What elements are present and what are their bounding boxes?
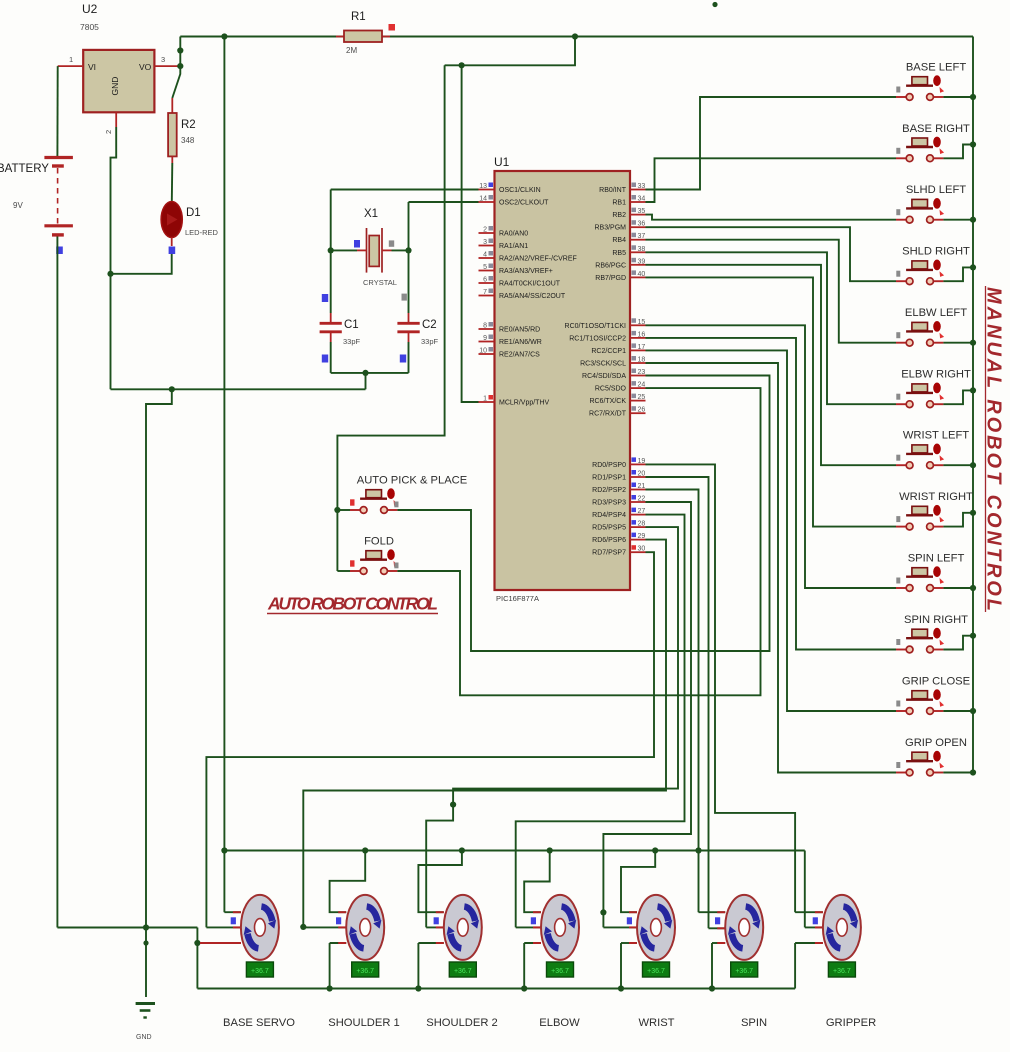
wire C1 bottom xyxy=(330,342,332,373)
pin 7 RA5/AN4/SS/C2OUT xyxy=(479,295,495,297)
svg-text:BATTERY: BATTERY xyxy=(0,163,49,175)
wire top +5V rail right of R1 xyxy=(382,36,973,38)
junction auto buttons feed xyxy=(334,507,340,513)
svg-text:RA0/AN0: RA0/AN0 xyxy=(499,231,528,238)
junction motor1 minus xyxy=(194,940,200,946)
svg-text:ELBW LEFT: ELBW LEFT xyxy=(905,307,967,319)
wire RD3 to motor5 signal xyxy=(603,502,691,927)
wire +5V button bus xyxy=(972,37,974,773)
svg-text:SLHD LEFT: SLHD LEFT xyxy=(906,184,966,196)
svg-text:6: 6 xyxy=(483,277,487,284)
svg-text:RA1/AN1: RA1/AN1 xyxy=(499,243,528,250)
pin 15 RC0/T1OSO/T1CKI xyxy=(630,324,646,326)
display M5 xyxy=(643,962,670,977)
svg-text:RD1/PSP1: RD1/PSP1 xyxy=(592,475,626,482)
svg-text:19: 19 xyxy=(638,458,646,465)
svg-text:RA2/AN2/VREF-/CVREF: RA2/AN2/VREF-/CVREF xyxy=(499,256,577,263)
wire VDD column to MCLR xyxy=(462,65,479,402)
display M7 xyxy=(828,962,855,977)
marker blue C2 bottom xyxy=(400,355,406,363)
junction top rail / VDD drop xyxy=(572,33,578,39)
svg-text:23: 23 xyxy=(638,369,646,376)
marker blue X1 left xyxy=(354,240,360,248)
pin 1 MCLR/Vpp/THV xyxy=(479,401,495,403)
wire R2 to D1 xyxy=(171,163,174,201)
wire ELBW RIGHT to bus xyxy=(943,390,973,404)
resistor R2 348 xyxy=(171,98,173,113)
svg-text:2: 2 xyxy=(104,130,113,134)
pin 30 RD7/PSP7 xyxy=(630,551,646,553)
wire RB2 to SLHD LEFT xyxy=(646,215,897,220)
wire RD1 to motor6 signal xyxy=(646,477,709,928)
svg-text:RD5/PSP5: RD5/PSP5 xyxy=(592,525,626,532)
motor M3 SHOULDER 2 xyxy=(459,847,465,853)
svg-text:SPIN LEFT: SPIN LEFT xyxy=(908,553,965,565)
junction VDD y65 xyxy=(459,62,465,68)
svg-text:RA3/AN3/VREF+: RA3/AN3/VREF+ xyxy=(499,268,553,275)
wire to FOLD left xyxy=(337,570,350,572)
wire OSC1 riser xyxy=(330,190,332,251)
svg-text:2: 2 xyxy=(483,227,487,234)
pin 23 RC4/SDI/SDA xyxy=(630,375,646,377)
pin 2 RA0/AN0 xyxy=(479,232,495,234)
pin 35 RB2 xyxy=(630,214,646,216)
ground symbol xyxy=(136,1002,155,1005)
junction stray motor3 xyxy=(450,802,456,808)
svg-text:AUTO ROBOT CONTROL: AUTO ROBOT CONTROL xyxy=(267,594,438,614)
wire gnd horizontal y389 xyxy=(111,388,366,390)
pin 14 OSC2/CLKOUT xyxy=(479,201,495,203)
wire RB0 to BASE LEFT xyxy=(646,97,897,190)
wire pin to ELBW LEFT xyxy=(646,240,897,343)
svg-text:22: 22 xyxy=(638,496,646,503)
svg-text:14: 14 xyxy=(479,196,487,203)
wire OSC2 riser xyxy=(408,202,410,250)
svg-text:33pF: 33pF xyxy=(421,337,439,346)
svg-text:RE0/AN5/RD: RE0/AN5/RD xyxy=(499,327,540,334)
wire SPIN RIGHT to bus xyxy=(943,636,973,650)
wire pin to WRIST LEFT xyxy=(646,265,897,465)
pin 38 RB5 xyxy=(630,251,646,253)
wire battery - down xyxy=(56,237,58,928)
pin 27 RD4/PSP4 xyxy=(630,514,646,516)
svg-text:RA5/AN4/SS/C2OUT: RA5/AN4/SS/C2OUT xyxy=(499,293,566,300)
svg-text:LED-RED: LED-RED xyxy=(185,228,219,237)
svg-text:+36.7: +36.7 xyxy=(647,968,665,975)
pin 16 RC1/T1OSI/CCP2 xyxy=(630,337,646,339)
svg-text:3: 3 xyxy=(161,55,165,64)
wire pin to SPIN RIGHT xyxy=(646,338,897,650)
marker gray AUTO right xyxy=(394,502,398,508)
wire BASE LEFT to bus xyxy=(943,96,973,98)
junction X1/C1 xyxy=(328,247,334,253)
motor M4 ELBOW xyxy=(547,847,553,853)
pin 26 RC7/RX/DT xyxy=(630,412,646,414)
svg-text:RD7/PSP7: RD7/PSP7 xyxy=(592,550,626,557)
svg-text:WRIST LEFT: WRIST LEFT xyxy=(903,430,969,442)
svg-text:21: 21 xyxy=(638,483,646,490)
svg-text:CRYSTAL: CRYSTAL xyxy=(363,278,397,287)
svg-text:RB5: RB5 xyxy=(612,250,626,257)
junction caps ground xyxy=(362,370,368,376)
marker blue D1 xyxy=(169,247,176,255)
LED D1 LED-RED xyxy=(161,202,182,238)
svg-text:RE1/AN6/WR: RE1/AN6/WR xyxy=(499,339,542,346)
svg-text:WRIST RIGHT: WRIST RIGHT xyxy=(899,491,973,503)
svg-text:RE2/AN7/CS: RE2/AN7/CS xyxy=(499,352,540,359)
wire motor supply bus A xyxy=(224,850,804,852)
wire caps ground rail xyxy=(331,372,409,374)
marker blue C1 bottom xyxy=(322,355,328,363)
svg-text:ELBW RIGHT: ELBW RIGHT xyxy=(901,369,971,381)
marker red AUTO xyxy=(350,499,354,505)
pin 25 RC6/TX/CK xyxy=(630,400,646,402)
svg-text:R1: R1 xyxy=(351,11,366,23)
svg-text:27: 27 xyxy=(638,508,646,515)
junction bus GRIP OPEN xyxy=(970,769,976,775)
svg-text:39: 39 xyxy=(638,258,646,265)
resistor R1 xyxy=(336,36,344,38)
svg-text:+36.7: +36.7 xyxy=(454,968,472,975)
wire RD4 to motor4 signal xyxy=(516,515,685,928)
wire OSC2 to pin14 xyxy=(409,201,479,203)
wire FOLD to RC5 xyxy=(397,388,760,695)
svg-text:37: 37 xyxy=(638,233,646,240)
svg-text:20: 20 xyxy=(638,471,646,478)
junction gnd y389 branch xyxy=(169,386,175,392)
wire C1 top xyxy=(330,250,332,313)
svg-text:GRIPPER: GRIPPER xyxy=(826,1017,876,1029)
svg-text:C1: C1 xyxy=(344,319,359,331)
pin 28 RD5/PSP5 xyxy=(630,526,646,528)
wire SPIN LEFT to bus xyxy=(943,587,973,589)
svg-text:ELBOW: ELBOW xyxy=(539,1017,580,1029)
junction bus BASE LEFT xyxy=(970,94,976,100)
junction VO riser xyxy=(177,47,183,53)
marker blue battery xyxy=(56,247,63,255)
wire motor gnd drop xyxy=(196,928,198,989)
wire pin to WRIST RIGHT xyxy=(646,277,897,526)
svg-text:MCLR/Vpp/THV: MCLR/Vpp/THV xyxy=(499,400,550,407)
pin 3 RA1/AN1 xyxy=(479,245,495,247)
marker gray X1 right xyxy=(389,240,394,246)
pin 33 RB0/INT xyxy=(630,189,646,191)
wire pin to ELBW RIGHT xyxy=(646,252,897,404)
pin 2 U2 xyxy=(115,112,117,127)
pin 5 RA3/AN3/VREF+ xyxy=(479,270,495,272)
motor M5 WRIST xyxy=(652,847,658,853)
pin 17 RC2/CCP1 xyxy=(630,349,646,351)
wire VO riser xyxy=(179,37,181,67)
svg-text:+36.7: +36.7 xyxy=(833,968,851,975)
svg-text:RD3/PSP3: RD3/PSP3 xyxy=(592,500,626,507)
wire VO to R2 diagonal xyxy=(172,66,180,98)
pin 29 RD6/PSP6 xyxy=(630,539,646,541)
junction motor2 signal corner xyxy=(300,924,306,930)
junction busA m6col xyxy=(695,847,701,853)
svg-text:X1: X1 xyxy=(364,208,378,220)
svg-text:SPIN: SPIN xyxy=(741,1017,767,1029)
svg-text:C2: C2 xyxy=(422,319,437,331)
svg-text:U2: U2 xyxy=(82,2,98,16)
svg-text:7: 7 xyxy=(483,289,487,296)
junction gnd line / D1 xyxy=(107,271,113,277)
wire GRIP CLOSE to bus xyxy=(943,710,973,712)
junction bus WRIST LEFT xyxy=(970,462,976,468)
svg-text:GRIP CLOSE: GRIP CLOSE xyxy=(902,676,970,688)
junction VO node xyxy=(177,63,183,69)
wire AUTO PICK to RC4 xyxy=(397,376,769,652)
wire ELBW LEFT to bus xyxy=(943,342,973,344)
svg-text:GRIP OPEN: GRIP OPEN xyxy=(905,737,967,749)
svg-text:VI: VI xyxy=(88,62,96,72)
wire D1 cathode to gnd line xyxy=(111,254,172,274)
svg-text:PIC16F877A: PIC16F877A xyxy=(496,594,539,603)
svg-text:1: 1 xyxy=(69,55,73,64)
svg-text:RD0/PSP0: RD0/PSP0 xyxy=(592,462,626,469)
svg-text:RC4/SDI/SDA: RC4/SDI/SDA xyxy=(582,373,626,380)
svg-text:36: 36 xyxy=(638,221,646,228)
svg-text:RC7/RX/DT: RC7/RX/DT xyxy=(589,411,627,418)
pin 40 RB7/PGD xyxy=(630,276,646,278)
display M4 xyxy=(547,962,574,977)
marker red FOLD xyxy=(350,560,354,566)
svg-text:10: 10 xyxy=(479,348,487,355)
wire X1 right xyxy=(392,249,409,251)
svg-text:FOLD: FOLD xyxy=(364,536,394,548)
pin 4 RA2/AN2/VREF-/CVREF xyxy=(479,257,495,259)
svg-text:13: 13 xyxy=(479,183,487,190)
wire C2 top xyxy=(408,250,410,313)
svg-text:RD6/PSP6: RD6/PSP6 xyxy=(592,537,626,544)
svg-text:24: 24 xyxy=(638,382,646,389)
wire RB1 to BASE RIGHT xyxy=(646,158,897,202)
svg-text:26: 26 xyxy=(638,407,646,414)
svg-text:9: 9 xyxy=(483,335,487,342)
pin 37 RB4 xyxy=(630,239,646,241)
wire RD7 to motor1 signal xyxy=(206,552,654,927)
svg-text:18: 18 xyxy=(638,357,646,364)
svg-text:33: 33 xyxy=(638,183,646,190)
pin 36 RB3/PGM xyxy=(630,226,646,228)
junction stray motor5 xyxy=(600,909,606,915)
wire top +5V rail left of R1 xyxy=(180,36,344,38)
svg-text:RD4/PSP4: RD4/PSP4 xyxy=(592,512,626,519)
pin 10 RE2/AN7/CS xyxy=(479,353,495,355)
svg-text:34: 34 xyxy=(638,196,646,203)
svg-text:7805: 7805 xyxy=(80,22,99,32)
junction bus ELBW RIGHT xyxy=(970,387,976,393)
wire WRIST RIGHT to bus xyxy=(943,513,973,527)
pin 39 RB6/PGC xyxy=(630,264,646,266)
svg-text:D1: D1 xyxy=(186,207,201,219)
svg-text:BASE LEFT: BASE LEFT xyxy=(906,62,966,74)
svg-text:RB3/PGM: RB3/PGM xyxy=(594,225,626,232)
svg-text:RC0/T1OSO/T1CKI: RC0/T1OSO/T1CKI xyxy=(565,323,627,330)
svg-text:RB1: RB1 xyxy=(612,200,626,207)
junction bus SPIN LEFT xyxy=(970,585,976,591)
svg-text:25: 25 xyxy=(638,394,646,401)
junction top rail / motor1 column xyxy=(221,33,227,39)
junction bus GRIP CLOSE xyxy=(970,708,976,714)
wire RD0 to motor7 top xyxy=(646,464,796,912)
svg-text:15: 15 xyxy=(638,319,646,326)
svg-text:RB7/PGD: RB7/PGD xyxy=(595,275,626,282)
svg-text:+36.7: +36.7 xyxy=(356,968,374,975)
wire pin to GRIP OPEN xyxy=(646,363,897,773)
wire VDD drop from rail xyxy=(445,37,575,66)
wire U2 gnd pin down xyxy=(111,127,117,389)
svg-text:35: 35 xyxy=(638,208,646,215)
pin 1 U2 xyxy=(58,65,83,67)
svg-text:BASE SERVO: BASE SERVO xyxy=(223,1017,295,1029)
svg-text:RC2/CCP1: RC2/CCP1 xyxy=(591,348,626,355)
junction bus SHLD RIGHT xyxy=(970,264,976,270)
svg-text:1: 1 xyxy=(483,396,487,403)
svg-text:348: 348 xyxy=(181,136,195,145)
marker blue C1 top xyxy=(322,294,328,302)
svg-text:RB6/PGC: RB6/PGC xyxy=(595,262,626,269)
svg-text:BASE RIGHT: BASE RIGHT xyxy=(902,123,970,135)
pin 21 RD2/PSP2 xyxy=(630,489,646,491)
svg-text:GND: GND xyxy=(110,77,120,96)
pin 13 OSC1/CLKIN xyxy=(479,189,495,191)
motor M7 GRIPPER xyxy=(795,911,823,913)
wire battery + xyxy=(56,66,58,156)
pin 8 RE0/AN5/RD xyxy=(479,328,495,330)
wire SLHD LEFT to bus xyxy=(943,219,973,221)
svg-text:16: 16 xyxy=(638,331,646,338)
svg-text:8: 8 xyxy=(483,323,487,330)
wire bus A to motor7 signal pin xyxy=(804,851,806,928)
pin 34 RB1 xyxy=(630,201,646,203)
pin 19 RD0/PSP0 xyxy=(630,463,646,465)
pin 6 RA4/T0CKI/C1OUT xyxy=(479,282,495,284)
stray junction dot top xyxy=(712,2,717,7)
pin 22 RD3/PSP3 xyxy=(630,501,646,503)
svg-text:WRIST: WRIST xyxy=(638,1017,674,1029)
marker gray FOLD right xyxy=(394,563,398,569)
svg-text:RD2/PSP2: RD2/PSP2 xyxy=(592,487,626,494)
wire BASE RIGHT to bus xyxy=(943,145,973,159)
motor M6 SPIN xyxy=(699,911,726,913)
junction bus SPIN RIGHT xyxy=(970,633,976,639)
svg-text:9V: 9V xyxy=(13,201,23,210)
svg-text:4: 4 xyxy=(483,252,487,259)
pin 3 U2 xyxy=(154,65,180,67)
svg-text:RB0/INT: RB0/INT xyxy=(599,187,627,194)
wire motor1 top column from +5V rail xyxy=(223,37,225,913)
svg-text:40: 40 xyxy=(638,271,646,278)
svg-text:VO: VO xyxy=(139,62,152,72)
wire RD5 to motor3 signal xyxy=(426,527,678,927)
svg-text:U1: U1 xyxy=(494,155,510,169)
svg-text:2M: 2M xyxy=(346,46,357,55)
svg-text:SHLD RIGHT: SHLD RIGHT xyxy=(902,246,970,258)
wire GRIP OPEN to bus xyxy=(943,772,973,774)
wire battery gnd bottom rail xyxy=(57,927,197,929)
junction bus WRIST RIGHT xyxy=(970,510,976,516)
wire C2 bottom xyxy=(408,342,410,373)
wire RD6 to motor2 signal xyxy=(303,540,666,927)
display M2 xyxy=(352,962,379,977)
display M6 xyxy=(731,962,758,977)
marker gray C2 top xyxy=(402,294,407,301)
pin 24 RC5/SDO xyxy=(630,387,646,389)
junction gnd column bottom xyxy=(143,924,149,930)
junction bus SLHD LEFT xyxy=(970,217,976,223)
wire SHLD RIGHT to bus xyxy=(943,267,973,281)
wire OSC1 to pin13 xyxy=(331,189,479,191)
wire X1 left xyxy=(331,249,357,251)
pin 20 RD1/PSP1 xyxy=(630,476,646,478)
display M3 xyxy=(449,962,476,977)
marker red square R1 xyxy=(389,24,396,31)
svg-text:OSC2/CLKOUT: OSC2/CLKOUT xyxy=(499,200,549,207)
svg-text:SPIN RIGHT: SPIN RIGHT xyxy=(904,614,968,626)
motor M1 BASE SERVO xyxy=(224,911,241,913)
display M1 xyxy=(246,962,273,977)
svg-text:28: 28 xyxy=(638,521,646,528)
svg-text:38: 38 xyxy=(638,246,646,253)
wire main ground drop x146 xyxy=(146,389,172,997)
pin 9 RE1/AN6/WR xyxy=(479,341,495,343)
svg-text:17: 17 xyxy=(638,344,646,351)
svg-text:RB2: RB2 xyxy=(612,212,626,219)
wire RD2 to motor6 top xyxy=(646,490,699,913)
pin 18 RC3/SCK/SCL xyxy=(630,362,646,364)
svg-text:AUTO PICK & PLACE: AUTO PICK & PLACE xyxy=(357,475,467,487)
svg-text:GND: GND xyxy=(136,1034,152,1041)
junction bus BASE RIGHT xyxy=(970,141,976,147)
wire to AUTO PICK left xyxy=(337,509,350,511)
svg-text:+36.7: +36.7 xyxy=(251,968,269,975)
wire motor bus B xyxy=(197,988,795,990)
svg-text:29: 29 xyxy=(638,533,646,540)
junction X1/C2 xyxy=(405,247,411,253)
junction gnd column small xyxy=(143,940,148,945)
svg-text:RC3/SCK/SCL: RC3/SCK/SCL xyxy=(580,361,626,368)
svg-text:+36.7: +36.7 xyxy=(551,968,569,975)
svg-text:RC6/TX/CK: RC6/TX/CK xyxy=(589,398,626,405)
svg-text:33pF: 33pF xyxy=(343,337,361,346)
svg-text:SHOULDER 2: SHOULDER 2 xyxy=(426,1017,498,1029)
wire motor1 minus lead xyxy=(197,942,240,944)
wire pin to SPIN LEFT xyxy=(646,325,897,588)
motor M2 SHOULDER 1 xyxy=(362,847,368,853)
svg-text:R2: R2 xyxy=(181,119,196,131)
svg-text:RA4/T0CKI/C1OUT: RA4/T0CKI/C1OUT xyxy=(499,281,561,288)
svg-text:+36.7: +36.7 xyxy=(735,968,753,975)
wire WRIST LEFT to bus xyxy=(943,464,973,466)
svg-text:30: 30 xyxy=(638,546,646,553)
junction busA m1col xyxy=(221,847,227,853)
svg-text:RC5/SDO: RC5/SDO xyxy=(595,386,627,393)
svg-text:RB4: RB4 xyxy=(612,237,626,244)
svg-text:RC1/T1OSI/CCP2: RC1/T1OSI/CCP2 xyxy=(569,335,626,342)
junction bus ELBW LEFT xyxy=(970,340,976,346)
wire pin to SHLD RIGHT xyxy=(646,227,897,281)
svg-text:OSC1/CLKIN: OSC1/CLKIN xyxy=(499,187,541,194)
wire VDD column to auto buttons xyxy=(337,65,444,571)
wire pin to GRIP CLOSE xyxy=(646,350,897,711)
svg-text:3: 3 xyxy=(483,239,487,246)
wire caps ground drop xyxy=(365,373,367,389)
svg-text:SHOULDER 1: SHOULDER 1 xyxy=(328,1017,400,1029)
svg-text:5: 5 xyxy=(483,264,487,271)
